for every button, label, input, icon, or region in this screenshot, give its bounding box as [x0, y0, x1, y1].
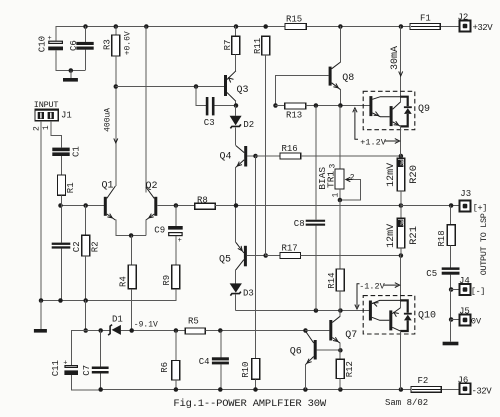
svg-text:R20: R20 — [408, 165, 420, 184]
wire -32V bottom rail — [100, 389, 411, 391]
node Q6-base/Q7-emitter junction — [338, 348, 343, 353]
transistor Q1 emitter lead — [107, 214, 116, 220]
wire C9 to R9 — [175, 236, 177, 265]
darlington Q10 dashed box — [363, 296, 415, 334]
node J4 junction — [449, 287, 454, 292]
svg-text:F1: F1 — [420, 14, 431, 24]
wire R16 row right — [301, 155, 401, 157]
svg-text:R13: R13 — [286, 110, 302, 120]
svg-text:Q4: Q4 — [220, 152, 232, 163]
transistor Q5 emitter arrow (PNP) — [238, 246, 242, 251]
transistor Q10-T2 bar — [389, 310, 392, 330]
connector J3 — [460, 201, 471, 212]
svg-text:3W: 3W — [399, 160, 405, 166]
wire Q7 emitter to R12 — [339, 350, 341, 359]
node rail R6 junction — [174, 387, 179, 392]
svg-text:D1: D1 — [112, 315, 123, 325]
resistor R17 — [280, 253, 301, 259]
svg-text:2: 2 — [350, 173, 355, 182]
transistor Q4 emitter lead — [236, 160, 244, 167]
node 30mA line rail junction — [399, 24, 404, 29]
node rail Q6 junction — [303, 387, 308, 392]
darlington Q9 dashed box — [363, 91, 415, 129]
node row330 R6 junction — [174, 328, 179, 333]
wire D1 anode to R4 node — [121, 330, 185, 332]
wire tail to R4 — [131, 236, 133, 266]
resistor R10 — [252, 359, 260, 380]
wire D2 cathode to Q4 — [235, 127, 237, 145]
wire R2 top lead — [85, 205, 87, 235]
transistor Q1 emitter arrow — [107, 214, 112, 218]
wire Q3 collector to D2 node — [235, 101, 237, 106]
node C6 top rail junction — [83, 24, 88, 29]
wire Q2 emitter down — [145, 220, 147, 236]
wire R17 row left — [265, 255, 280, 257]
wire output row to J3 — [400, 205, 459, 207]
svg-text:C11: C11 — [51, 360, 61, 376]
wire Q10 collector down — [400, 331, 402, 390]
node C3 branch junction — [194, 84, 199, 89]
wire R4 bottom — [131, 289, 133, 331]
connector J1 — [35, 109, 59, 121]
wire C2 bottom lead — [61, 249, 63, 301]
wire C1 to R1 — [61, 156, 63, 175]
capacitor C10 — [49, 41, 63, 43]
node R1/C2 junction — [58, 203, 63, 208]
resistor R6 — [172, 361, 180, 381]
svg-text:J6: J6 — [458, 375, 469, 385]
wire Q7 base lead — [305, 330, 329, 332]
wire C11 top corner — [71, 331, 73, 365]
node R18 branch junction — [449, 203, 454, 208]
wire C2 top lead — [61, 205, 63, 243]
wire Q8 emitter down — [340, 90, 342, 106]
wire C7 bottom lead — [100, 374, 102, 390]
node J5 junction — [449, 317, 454, 322]
wire Q8 base down — [275, 76, 277, 106]
wire top rail F1 to J2 — [440, 26, 459, 28]
wire +32V top rail right section — [306, 26, 410, 28]
wire D3 cathode down — [235, 295, 237, 311]
svg-text:Q6: Q6 — [290, 347, 302, 358]
transistor Q10-T1 bar — [369, 301, 372, 321]
connector J2 — [460, 21, 471, 32]
wire R17 row right — [301, 255, 401, 257]
svg-text:Q1: Q1 — [102, 181, 114, 192]
ground symbol top-left — [63, 71, 78, 82]
svg-text:[-]: [-] — [471, 287, 485, 297]
svg-text:+: + — [178, 237, 182, 245]
svg-text:0V: 0V — [471, 317, 482, 327]
node R11/R15 rail junction — [263, 24, 268, 29]
node D2 anode junction — [234, 103, 239, 108]
svg-text:1: 1 — [331, 193, 340, 198]
wire R5 to Q7 base — [205, 330, 305, 332]
svg-text:Q2: Q2 — [146, 181, 158, 192]
node TR1 bottom junction — [338, 198, 343, 203]
svg-text:Sam 8/02: Sam 8/02 — [385, 398, 428, 408]
capacitor C4 — [212, 357, 229, 360]
svg-text:+1.2V: +1.2V — [360, 137, 386, 147]
wire R18 to C5 — [450, 246, 452, 268]
svg-text:J2: J2 — [458, 12, 469, 22]
wire output line to Q10 — [400, 255, 402, 300]
svg-text:Q10: Q10 — [418, 311, 436, 322]
transistor Q5 collector lead — [236, 260, 244, 270]
capacitor C1 — [52, 148, 69, 152]
svg-text:Q9: Q9 — [418, 104, 430, 115]
node row330 C4 junction — [218, 328, 223, 333]
wire rail corner down to C10 — [55, 26, 57, 41]
transistor Q8 emitter arrow — [333, 84, 338, 88]
resistor R9 — [172, 265, 180, 289]
wire R14 bottom lead — [339, 291, 341, 311]
diode Q9 internal — [404, 106, 412, 108]
svg-text:C7: C7 — [82, 365, 92, 376]
wire C3 right lead — [215, 105, 236, 107]
node rail C7 junction — [98, 387, 103, 392]
resistor R7 — [232, 36, 240, 54]
svg-text:R16: R16 — [282, 144, 298, 154]
potentiometer TR1 body — [335, 169, 344, 189]
wire Q9 emitter down — [400, 126, 402, 156]
transistor Q2 bar — [154, 197, 157, 216]
svg-text:1: 1 — [42, 125, 51, 130]
wire R2 bottom lead — [85, 256, 87, 301]
transistor Q5 bar — [244, 246, 247, 266]
svg-text:C8: C8 — [294, 219, 305, 229]
ground symbol input — [34, 301, 47, 333]
wire C4 bottom lead — [220, 364, 222, 389]
transistor Q1 collector lead — [107, 186, 116, 198]
wire R8 to output row — [215, 205, 400, 207]
wire C7 top lead — [100, 331, 102, 367]
capacitor C3 — [206, 97, 209, 115]
svg-text:J5: J5 — [459, 306, 470, 316]
wire R10 top long — [255, 156, 257, 359]
transistor Q7 collector lead — [332, 316, 340, 322]
wire C3 branch down — [195, 86, 197, 106]
node rail C4 junction — [218, 387, 223, 392]
wire Q5 base lead — [247, 255, 265, 257]
connector J6 — [460, 383, 471, 394]
connector J5 — [460, 314, 471, 325]
wire R14 top lead — [339, 200, 341, 269]
node rail R10 junction — [253, 387, 258, 392]
resistor R1 — [58, 175, 66, 195]
capacitor C5 — [442, 267, 460, 270]
svg-text:R8: R8 — [197, 195, 208, 205]
diode Q10 internal — [404, 313, 412, 315]
transistor Q6 collector lead — [305, 331, 313, 343]
wire R10 bottom lead — [255, 379, 257, 389]
connector J4 — [460, 284, 471, 295]
wire gnd link row300-row330 — [85, 300, 87, 331]
node C9 branch junction — [174, 203, 179, 208]
transistor Q2 emitter arrow — [149, 214, 154, 218]
wire R11 bottom long — [265, 55, 267, 255]
transistor Q9-T1 emitter arrow — [374, 112, 379, 116]
transistor Q9-T1 bar — [369, 96, 372, 116]
svg-text:-9.1V: -9.1V — [134, 320, 158, 329]
resistor R20 — [397, 158, 405, 191]
svg-text:R17: R17 — [282, 243, 298, 253]
resistor R11 — [262, 36, 270, 55]
resistor R14 — [336, 269, 344, 291]
node LTP tail junction — [129, 233, 134, 238]
node Q5 base junction — [263, 253, 268, 258]
transistor Q6 bar — [314, 340, 317, 360]
capacitor C6 — [76, 42, 93, 45]
svg-text:R15: R15 — [286, 15, 302, 25]
wire C8 top lead — [315, 106, 317, 220]
wire Q10 emitter segment — [400, 300, 402, 307]
wire J1 pin2 down — [40, 121, 42, 301]
wire Q2 base row to R8 — [157, 205, 194, 207]
wire Q2 collector line — [145, 26, 147, 192]
node rail Q10 junction — [399, 387, 404, 392]
transistor Q2 emitter lead — [146, 214, 154, 220]
transistor Q10-T2 collector lead — [392, 327, 400, 331]
svg-text:Q8: Q8 — [342, 73, 354, 84]
transistor Q8 collector lead — [332, 62, 341, 69]
wire jog to C1 — [61, 135, 63, 148]
wire R6 top lead — [175, 331, 177, 361]
node R7 top rail junction — [234, 24, 239, 29]
node output row R20/R21 junction — [399, 203, 404, 208]
resistor R15 — [285, 24, 306, 30]
node row330 R2-link junction — [83, 328, 88, 333]
transistor Q10-T2 emitter lead — [392, 308, 400, 314]
wire R20 top lead — [400, 156, 402, 159]
transistor Q7 emitter lead — [332, 338, 340, 344]
svg-text:OUTPUT TO LSP: OUTPUT TO LSP — [479, 213, 489, 275]
annotation +1.2V arrow — [385, 140, 398, 142]
node R3/Q3-base junction — [114, 84, 119, 89]
fuse F1 — [410, 24, 440, 30]
node Q7-base/Q6-collector junction — [303, 328, 308, 333]
transistor Q3 emitter lead — [227, 71, 236, 80]
transistor Q7 emitter arrow — [333, 337, 338, 341]
svg-text:R4: R4 — [118, 276, 128, 287]
wire J4 to J5 node — [450, 289, 452, 320]
transistor Q9-T2 collector lead — [393, 102, 401, 109]
node feedback row C2 junction — [58, 298, 63, 303]
svg-text:2: 2 — [32, 126, 41, 131]
svg-text:-1.2V: -1.2V — [359, 281, 385, 291]
wire C6 bottom lead — [85, 50, 87, 71]
svg-text:400uA: 400uA — [104, 108, 113, 132]
transistor Q3 bar — [224, 75, 227, 96]
node Q4/Q5 emitter junction — [234, 203, 239, 208]
annotation +1.2V bracket — [355, 110, 358, 139]
diode Q10 internal bracket — [400, 300, 408, 331]
node Q2 collector rail junction — [144, 24, 149, 29]
svg-text:J4: J4 — [459, 276, 470, 286]
arrow 400uA down — [114, 138, 118, 143]
wire Q6 base lead — [317, 349, 340, 351]
svg-text:R1: R1 — [66, 182, 76, 193]
node C8 bottom junction — [314, 308, 319, 313]
resistor R8 — [195, 203, 216, 209]
resistor R4 — [128, 265, 136, 289]
svg-text:R2: R2 — [91, 241, 101, 252]
fuse F2 — [411, 387, 441, 393]
node cap-gnd junction — [69, 68, 74, 73]
node row330 R4 junction — [129, 328, 134, 333]
transistor Q4 emitter arrow — [237, 162, 242, 167]
svg-text:R10: R10 — [241, 362, 251, 378]
transistor Q3 collector lead — [227, 93, 236, 102]
transistor Q10-T1 emitter arrow (PNP) — [374, 303, 379, 307]
svg-text:R14: R14 — [327, 272, 337, 288]
resistor R5 — [185, 328, 205, 334]
diode Q9 internal bracket — [400, 97, 408, 127]
wire TR1 wiper link — [340, 180, 361, 201]
resistor R2 — [82, 235, 90, 256]
svg-text:Fig.1--POWER AMPLFIER 30W: Fig.1--POWER AMPLFIER 30W — [173, 398, 326, 410]
svg-text:[+]: [+] — [473, 203, 487, 213]
svg-text:R18: R18 — [437, 230, 447, 246]
svg-text:D2: D2 — [243, 120, 254, 130]
capacitor C7 — [92, 367, 109, 370]
transistor Q9-T2 bar — [390, 106, 393, 126]
wire J1 pin1 down — [50, 121, 52, 136]
wire to J4 — [451, 289, 460, 291]
resistor R12 — [336, 359, 344, 378]
transistor Q5 emitter lead — [236, 242, 244, 253]
svg-text:D3: D3 — [243, 289, 254, 299]
capacitor C2 — [52, 243, 71, 245]
svg-text:R7: R7 — [223, 40, 233, 51]
svg-text:+32V: +32V — [473, 23, 494, 33]
svg-text:R9: R9 — [162, 275, 172, 286]
wire R6 bottom lead — [175, 380, 177, 390]
transistor Q9-T2 emitter arrow — [394, 121, 399, 125]
wire +32V top rail left section — [56, 26, 285, 28]
potentiometer TR1 wiper arrow — [347, 179, 353, 181]
resistor R18 — [447, 225, 455, 246]
wire row330 left section — [71, 330, 109, 332]
diode D1 body — [108, 325, 112, 336]
resistor R21 3W mark — [398, 220, 404, 227]
svg-text:3W: 3W — [399, 220, 405, 226]
wire Q8 collector vertical — [340, 26, 342, 62]
capacitor C9 — [168, 226, 183, 230]
node R17/R21 junction — [399, 253, 404, 258]
wire Q8 emitter to TR1 — [339, 106, 341, 170]
transistor Q6 emitter arrow — [307, 359, 312, 364]
wire 30mA line — [400, 26, 402, 96]
transistor Q9-T1 emitter lead — [372, 113, 389, 117]
svg-text:C10: C10 — [37, 36, 47, 52]
transistor Q8 bar — [329, 67, 332, 86]
svg-text:Q7: Q7 — [345, 330, 357, 341]
wire TR1 bottom lead — [339, 189, 341, 200]
wire C6 top lead — [85, 26, 87, 42]
resistor R20 3W mark — [398, 160, 404, 167]
resistor R21 — [397, 218, 405, 248]
svg-text:R11: R11 — [253, 38, 263, 54]
node Q8 collector rail junction — [338, 24, 343, 29]
wire R21 top lead — [400, 206, 402, 219]
svg-text:Q3: Q3 — [237, 85, 249, 96]
svg-text:C4: C4 — [199, 357, 210, 367]
node feedback row R2 junction — [83, 298, 88, 303]
svg-text:R21: R21 — [408, 226, 420, 245]
wire R18 top lead — [450, 206, 452, 225]
transistor Q9-T1 collector lead — [372, 97, 400, 100]
node R13/Q8-emitter junction — [338, 103, 343, 108]
wire LTP emitter tail — [115, 235, 146, 237]
wire R12 bottom lead — [339, 379, 341, 390]
node R14/Q7-collector junction — [338, 308, 343, 313]
wire R16 row left — [255, 155, 280, 157]
wire C10 bottom — [55, 50, 57, 70]
wire Q7 collector up — [339, 311, 341, 317]
wire Q8 base lead — [275, 75, 329, 77]
wire R3 bottom to Q1 collector (400uA) — [115, 56, 117, 186]
transistor Q3 emitter arrow (PNP) — [229, 78, 234, 83]
capacitor C11 — [65, 366, 77, 368]
node R2 top junction — [83, 203, 88, 208]
wire R20 bottom lead — [400, 191, 402, 206]
svg-text:3: 3 — [328, 164, 337, 169]
wire J1 pin1 jog — [51, 135, 61, 137]
svg-text:C6: C6 — [69, 40, 79, 51]
svg-text:12mV: 12mV — [386, 224, 397, 248]
svg-text:R3: R3 — [103, 39, 113, 50]
wire Q3 base row — [115, 86, 224, 88]
wire cap bottoms join — [56, 70, 85, 72]
node R13 row Q8-base junction — [273, 103, 278, 108]
svg-text:+: + — [63, 359, 67, 367]
transistor Q1 bar — [104, 197, 107, 216]
svg-text:Q5: Q5 — [219, 254, 231, 265]
node rail R12 junction — [338, 387, 343, 392]
svg-text:J1: J1 — [61, 111, 72, 121]
transistor Q6 emitter lead — [305, 357, 313, 365]
wire D2 anode — [235, 106, 237, 116]
transistor Q8 emitter lead — [332, 83, 341, 90]
transistor Q9-T2 emitter lead — [393, 122, 401, 127]
node row330 C7 junction — [98, 328, 103, 333]
wire C3 left lead — [196, 105, 206, 107]
svg-text:+0.6V: +0.6V — [124, 31, 133, 55]
svg-text:C5: C5 — [426, 269, 437, 279]
transistor Q10-T1 collector lead — [372, 317, 389, 320]
transistor Q4 bar — [244, 146, 247, 167]
resistor R3 — [112, 35, 120, 56]
resistor R16 — [280, 153, 301, 159]
svg-text:30mA: 30mA — [390, 46, 401, 70]
svg-text:12mV: 12mV — [386, 163, 397, 187]
wire Q4 base lead — [247, 155, 255, 157]
wire bottom rail F2 to J6 — [441, 389, 459, 391]
wire Q10 base row — [236, 310, 369, 312]
svg-text:R6: R6 — [160, 362, 170, 373]
wire C8 bottom lead — [315, 226, 317, 311]
wire R1 bottom — [61, 195, 63, 205]
node R16/R20 junction — [399, 154, 404, 159]
svg-text:+: + — [48, 35, 52, 43]
wire Q9 collector segment — [400, 96, 402, 102]
wire Q4 emitter down — [235, 167, 237, 206]
wire C11 bottom corner — [72, 375, 100, 390]
transistor Q10-T2 emitter arrow (PNP) — [394, 313, 399, 317]
svg-text:F2: F2 — [418, 376, 429, 386]
transistor Q7 bar — [329, 320, 332, 341]
